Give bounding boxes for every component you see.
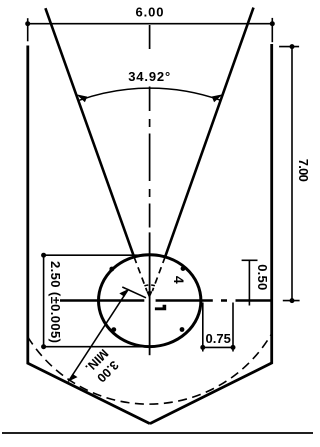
bolt dot upper-right: [181, 266, 186, 271]
svg-text:6.00: 6.00: [136, 4, 164, 19]
dimension 6.00 line: [28, 23, 273, 25]
dimension 7.00 line: [291, 47, 293, 301]
small dashed vertex arc: [144, 284, 155, 287]
dashed alternate-bottom arc: [28, 334, 272, 404]
angle arc right arrowhead: [212, 94, 223, 102]
dimension 0.75 left dot: [200, 345, 205, 350]
svg-text:4: 4: [171, 276, 187, 284]
dashed V continuation right inside circle: [152, 257, 165, 291]
svg-text:2.50 (±0.005): 2.50 (±0.005): [48, 261, 63, 343]
extension line top-left: [27, 18, 29, 41]
vertical centerline through circle: [149, 232, 151, 355]
outline bottom-right chamfer: [150, 363, 273, 424]
dimension 2.50 bottom dot: [41, 344, 46, 349]
radius line bottom arrowhead: [68, 374, 77, 382]
radius 3.00 MIN dimension line: [68, 289, 128, 382]
svg-text:34.92°: 34.92°: [128, 69, 170, 84]
dimension 0.75 right dot: [231, 345, 236, 350]
extension line circle bottom tangent: [44, 346, 147, 348]
horizontal centerline segments: [60, 299, 271, 301]
bore circle (ellipse): [99, 255, 201, 347]
extension line top-right: [271, 18, 273, 42]
outline bottom-left chamfer: [27, 363, 150, 424]
dimension 0.50 line: [248, 260, 250, 305]
svg-text:0.50: 0.50: [255, 264, 270, 290]
bolt dot upper-left: [109, 267, 114, 272]
angle arc 34.92: [80, 88, 221, 100]
dimension 0.50 tick top: [242, 259, 258, 261]
dimension 2.50 line: [43, 255, 45, 347]
outline left edge: [26, 46, 29, 364]
dimension 7.00 top dot: [290, 44, 295, 49]
radius leader to center: [122, 287, 146, 298]
angle arc left arrowhead: [76, 94, 87, 102]
outline right edge: [270, 44, 273, 363]
dimension text 3.00 MIN rotated: [82, 346, 122, 386]
funnel wall left (V line): [45, 8, 134, 257]
extension line circle top tangent: [44, 254, 147, 256]
extension tick bottom for 7.00: [283, 300, 300, 302]
dimension 6.00 right dot: [270, 21, 275, 26]
dimension 6.00 left dot: [25, 21, 30, 26]
dashed V continuation left inside circle: [134, 257, 147, 291]
extension line 0.75 left: [202, 303, 204, 352]
dimension 7.00 bottom dot: [290, 298, 295, 303]
vertical centerline dash-dot upper: [149, 25, 151, 228]
sheet border bottom line: [2, 432, 313, 434]
extension tick top for 7.00: [279, 46, 299, 48]
svg-text:7.00: 7.00: [296, 159, 311, 182]
dimension 2.50 top dot: [41, 253, 46, 258]
bolt dot lower-left: [111, 327, 116, 332]
dimension 0.75 line: [203, 346, 233, 348]
svg-text:0.75: 0.75: [206, 331, 231, 346]
bolt dot lower-right: [180, 327, 185, 332]
funnel wall right (V line): [165, 8, 253, 257]
radius line top arrowhead: [119, 289, 128, 297]
vertex arrow pointing down at center: [146, 291, 152, 298]
label 1 rotated: [155, 305, 166, 311]
extension line 0.75 right: [232, 303, 234, 352]
